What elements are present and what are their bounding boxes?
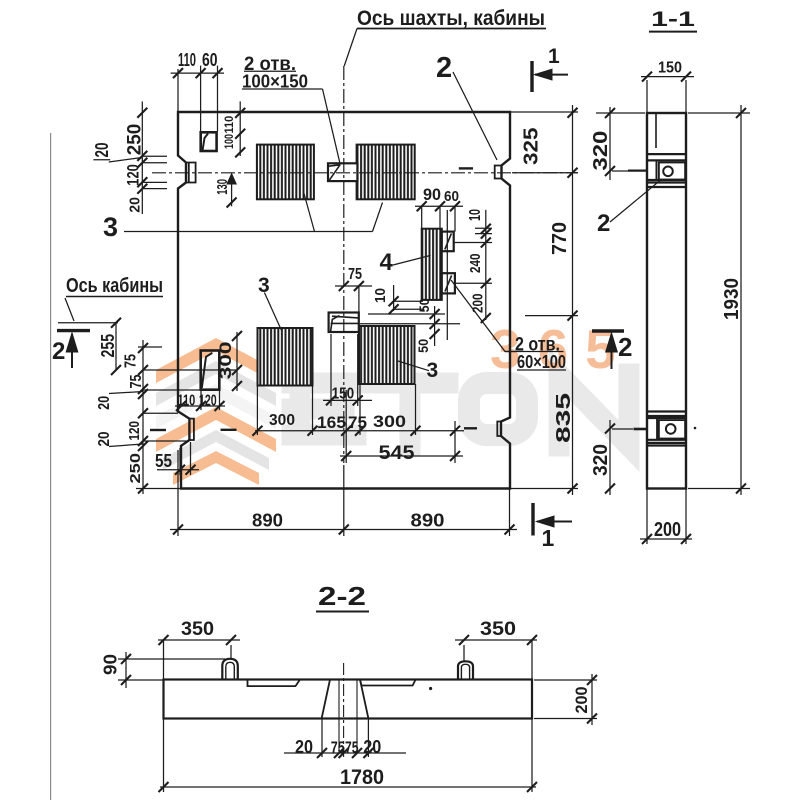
110/120 dim lower — [175, 405, 225, 407]
leader 4 — [393, 255, 431, 265]
svg-text:20: 20 — [92, 143, 112, 158]
keyway trapezoid — [322, 680, 369, 719]
svg-text:835: 835 — [553, 393, 575, 443]
Os' kabiny leader — [66, 296, 163, 298]
top insert circle — [663, 167, 673, 177]
underlines 60x100 — [505, 351, 564, 353]
svg-text:50: 50 — [416, 298, 432, 312]
svg-text:1: 1 — [548, 45, 560, 68]
bottom insert circle — [666, 424, 676, 434]
watermark letters ETON — [292, 374, 629, 446]
watermark logo chevrons — [156, 338, 276, 485]
svg-text:320: 320 — [590, 444, 612, 476]
frame line — [50, 133, 52, 800]
svg-text:300: 300 — [269, 412, 295, 429]
panel outline plan view — [178, 112, 510, 489]
svg-text:250: 250 — [127, 453, 144, 484]
lower-left chain — [138, 343, 148, 494]
svg-text:20: 20 — [96, 431, 113, 446]
upper-left chain x=142 — [141, 102, 143, 215]
shaft axis vertical dash-dot — [343, 66, 345, 463]
leader 3 lower-right — [398, 361, 429, 371]
svg-text:1930: 1930 — [721, 278, 743, 320]
hatched block 2 (top right) — [357, 145, 415, 200]
svg-text:300: 300 — [373, 412, 406, 431]
svg-text:240: 240 — [467, 254, 484, 274]
svg-text:120: 120 — [199, 393, 217, 410]
leader line 3 top — [124, 231, 373, 233]
right chain x=572.5 — [572, 105, 574, 495]
bottom chain — [252, 426, 460, 436]
bottom edge ext left — [136, 488, 181, 490]
svg-text:2: 2 — [52, 338, 65, 365]
section 2-2 dims — [158, 639, 240, 641]
svg-text:165: 165 — [317, 413, 346, 432]
svg-text:60: 60 — [202, 50, 218, 70]
svg-text:Ось шахты, кабины: Ось шахты, кабины — [357, 7, 545, 30]
svg-text:10: 10 — [372, 288, 389, 303]
100/110 chain — [235, 108, 245, 157]
svg-text:90: 90 — [423, 185, 441, 204]
svg-text:1-1: 1-1 — [651, 8, 695, 31]
svg-text:350: 350 — [480, 619, 516, 640]
svg-text:50: 50 — [415, 339, 431, 353]
svg-text:110: 110 — [178, 50, 196, 70]
50/50 chain — [430, 309, 440, 339]
lower-left chain x=143 — [142, 340, 144, 494]
section 2-2 — [159, 635, 237, 645]
small dots — [429, 687, 432, 690]
75 near axis — [339, 281, 364, 291]
svg-text:250: 250 — [125, 124, 146, 156]
svg-text:150: 150 — [332, 386, 355, 403]
top insert lines — [647, 153, 686, 155]
300 dim at insert2 — [236, 332, 238, 391]
890 — [173, 525, 515, 535]
element 4 (vertical hatched bar) — [422, 229, 442, 300]
section 2-2 axis — [343, 663, 345, 757]
2otv leader bottom — [451, 280, 516, 352]
ext pairs left notch — [142, 155, 167, 157]
545 dim — [340, 455, 463, 457]
svg-text:60: 60 — [444, 188, 459, 205]
svg-text:75: 75 — [128, 374, 145, 388]
svg-text:3: 3 — [258, 274, 270, 297]
horizontal centerline top row — [152, 172, 578, 174]
right chain x=572.5 — [568, 108, 578, 494]
right recess — [360, 680, 416, 686]
element4 right chain — [481, 224, 491, 323]
section 1-1 outline — [647, 113, 686, 489]
lower centerline dashes — [150, 429, 166, 431]
arrow 130 dim — [226, 173, 237, 185]
svg-text:4: 4 — [380, 249, 394, 276]
2otv top leader — [323, 89, 341, 164]
bottom insert left stub — [634, 428, 648, 431]
svg-text:20: 20 — [96, 396, 113, 410]
svg-text:120: 120 — [126, 421, 143, 441]
255 — [111, 318, 121, 375]
left lifting loop — [222, 659, 238, 680]
bottom insert lines — [647, 410, 686, 412]
890 dim — [170, 529, 517, 531]
svg-text:2-2: 2-2 — [318, 581, 366, 611]
left notch slot — [186, 163, 196, 183]
150 dim (loop2) — [323, 399, 372, 401]
bottom chain y=430.8 — [255, 430, 464, 432]
svg-text:100×150: 100×150 — [242, 72, 308, 92]
bottom insert box — [656, 418, 658, 440]
20 outriggers lower — [109, 392, 143, 394]
inner vertical top — [655, 113, 657, 148]
element 4 lower tab — [442, 273, 455, 293]
svg-text:110: 110 — [178, 393, 196, 410]
top insert left stub — [628, 170, 647, 172]
svg-text:770: 770 — [549, 222, 571, 255]
svg-text:2: 2 — [618, 332, 632, 362]
svg-text:20: 20 — [363, 737, 381, 757]
rotated labels — [92, 116, 743, 714]
svg-text:200: 200 — [654, 519, 681, 541]
keyway inner verticals — [338, 680, 340, 753]
svg-text:1: 1 — [542, 525, 555, 551]
top insert box — [656, 160, 658, 180]
hatched block 4 (bottom right) — [359, 326, 415, 384]
svg-text:20: 20 — [127, 197, 144, 213]
svg-text:300: 300 — [216, 341, 235, 379]
svg-text:75: 75 — [123, 354, 140, 368]
150 loop2 — [326, 395, 363, 405]
hatched block 1 (top left) — [257, 145, 314, 200]
545 — [341, 451, 460, 461]
svg-text:60×100: 60×100 — [517, 352, 566, 372]
insert plate 1 (top left, square with diagonal) — [201, 132, 217, 151]
right lower notch slot — [497, 422, 501, 437]
svg-text:2: 2 — [436, 52, 452, 84]
leader 2 section insert — [610, 181, 660, 223]
slab outline — [164, 680, 533, 719]
insert2 300 dim ticks — [232, 331, 242, 391]
90/60 dim above element4 — [415, 205, 463, 207]
svg-text:110: 110 — [222, 116, 236, 134]
upper-left chain — [137, 108, 147, 194]
hatched block 3 (bottom left) — [258, 328, 313, 386]
svg-text:350: 350 — [181, 619, 214, 640]
svg-text:255: 255 — [98, 334, 118, 358]
svg-text:3: 3 — [103, 212, 118, 242]
svg-text:75: 75 — [345, 738, 359, 757]
lifting loop 1 (top center) — [328, 163, 357, 181]
right chain of element4 x=486 — [485, 210, 487, 320]
svg-text:200: 200 — [470, 294, 487, 314]
50/50 dim chain — [434, 306, 436, 346]
section mark 2 right — [592, 331, 624, 369]
svg-text:2: 2 — [597, 210, 610, 237]
svg-text:890: 890 — [252, 511, 283, 531]
130 dim — [231, 173, 233, 206]
130 bottom tick — [227, 198, 237, 208]
svg-text:325: 325 — [521, 128, 543, 166]
svg-text:100: 100 — [222, 134, 236, 149]
90/60 — [417, 201, 460, 211]
section mark 2 left — [57, 331, 90, 368]
10 small — [389, 296, 399, 314]
section mark 1 bottom — [533, 503, 572, 536]
svg-text:10: 10 — [467, 209, 484, 221]
right upper notch slot — [495, 166, 502, 179]
lifting loop 2 (lower center) — [329, 313, 359, 333]
top 110/60 — [173, 68, 223, 78]
leader 3 lower-left — [264, 293, 281, 331]
right lifting loop — [458, 661, 473, 680]
svg-text:90: 90 — [101, 654, 121, 675]
svg-text:320: 320 — [590, 131, 612, 171]
left recess — [248, 680, 301, 687]
svg-text:75: 75 — [348, 413, 367, 432]
svg-text:1780: 1780 — [340, 766, 384, 789]
section 1-1 dims — [641, 76, 694, 78]
svg-text:75: 75 — [348, 266, 362, 283]
20 outrigger top — [93, 159, 110, 161]
section 1-1 — [642, 72, 691, 82]
svg-text:20: 20 — [295, 737, 313, 757]
svg-text:890: 890 — [411, 511, 445, 531]
55 — [175, 465, 196, 475]
svg-text:545: 545 — [379, 443, 415, 464]
10 dim small — [393, 285, 395, 311]
55 dim — [157, 469, 199, 471]
svg-text:120: 120 — [124, 164, 143, 186]
leader 2 top right — [453, 72, 497, 160]
insert plate 2 (lower left, tall with diagonal) — [201, 351, 220, 390]
svg-text:55: 55 — [155, 451, 172, 471]
svg-text:3: 3 — [427, 359, 439, 382]
svg-text:75: 75 — [331, 738, 345, 757]
section mark 1 top — [532, 61, 568, 92]
element 4 upper tab — [442, 232, 454, 252]
left lower notch slot outer — [189, 419, 194, 440]
75 dim near axis — [335, 285, 372, 287]
svg-text:200: 200 — [572, 687, 591, 714]
110/120 lower — [176, 401, 225, 411]
centerline dash right of top row — [459, 167, 473, 169]
svg-text:Ось кабины: Ось кабины — [66, 275, 163, 297]
100/110 dim right of insert1 — [239, 101, 241, 156]
svg-text:150: 150 — [658, 60, 682, 77]
top 110/60 dim — [171, 72, 224, 74]
255 dim — [115, 323, 117, 370]
